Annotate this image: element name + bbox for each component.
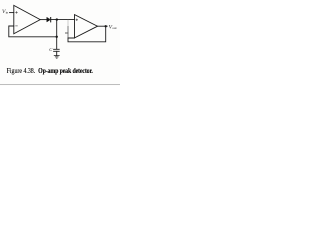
wire feedback to U1 inverting input xyxy=(9,26,57,37)
caption xyxy=(7,68,120,76)
ground xyxy=(54,56,59,59)
svg-text:out: out xyxy=(112,26,116,30)
page rule at bottom xyxy=(0,84,120,85)
wire U2 output to Vout xyxy=(98,25,108,27)
op-amp U2 xyxy=(65,15,97,38)
op-amp U1 xyxy=(14,5,40,33)
node Vin label xyxy=(2,9,9,15)
wire faint scan ghost above U2 feedback corner xyxy=(67,20,69,26)
wire Vin input xyxy=(10,12,14,14)
wire U2 feedback loop xyxy=(68,26,106,42)
wire capacitor to ground xyxy=(56,51,58,55)
diode D1 xyxy=(47,18,51,22)
node junction feedback tap xyxy=(56,36,58,38)
node Vout junction xyxy=(105,25,107,27)
svg-text:in: in xyxy=(6,11,9,15)
node Vout label xyxy=(109,24,117,30)
node junction at capacitor top xyxy=(56,18,58,20)
svg-text:C: C xyxy=(49,47,53,52)
wire op-amp U1 output to diode xyxy=(40,19,47,21)
wire node down to capacitor xyxy=(56,20,58,49)
wire diode to op-amp U2 + input xyxy=(51,19,74,21)
capacitor C plates xyxy=(54,49,60,51)
